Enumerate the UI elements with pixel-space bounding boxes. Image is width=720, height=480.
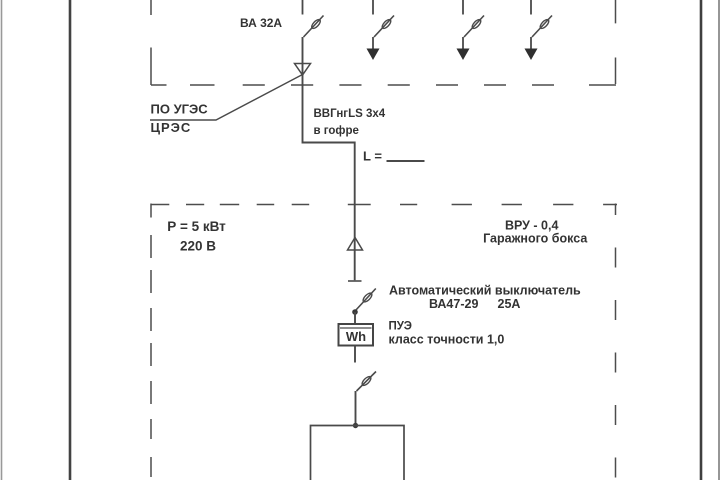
svg-text:в гофре: в гофре xyxy=(314,125,359,137)
breaker QF3 mark xyxy=(471,18,482,30)
drawing frame left xyxy=(69,0,72,480)
svg-text:25А: 25А xyxy=(498,297,521,311)
switch QS1 mark xyxy=(361,375,373,387)
svg-text:Автоматический выключатель: Автоматический выключатель xyxy=(389,284,581,298)
breaker QF2 blade xyxy=(374,16,394,38)
svg-text:ЦРЭС: ЦРЭС xyxy=(151,120,192,135)
breaker QF5 mark xyxy=(362,292,374,304)
breaker QF4 arrow xyxy=(525,49,538,61)
svg-text:Гаражного бокса: Гаражного бокса xyxy=(483,232,588,246)
dashed enclosure box 1 (supply cabinet) left border xyxy=(150,0,152,85)
breaker QF2 supply stub xyxy=(372,0,374,15)
svg-text:ВА47-29: ВА47-29 xyxy=(429,297,478,311)
breaker QF2 feeder stub xyxy=(372,37,374,50)
wire meter to switch xyxy=(354,346,356,363)
wire hinge to meter xyxy=(354,312,356,324)
dashed enclosure box 1 right border xyxy=(615,0,617,84)
breaker QF3 arrow xyxy=(457,49,470,61)
svg-text:ПУЭ: ПУЭ xyxy=(389,321,412,333)
svg-text:L =: L = xyxy=(363,149,382,164)
breaker QF1 blade xyxy=(304,16,324,38)
breaker QF5 (ВА47-29) blade xyxy=(356,289,376,311)
leader line to ПО УГЭС xyxy=(150,75,303,121)
breaker QF1 supply stub xyxy=(302,0,304,15)
breaker QF3 feeder stub xyxy=(462,37,464,50)
breaker QF4 mark xyxy=(539,18,550,30)
breaker QF4 feeder stub xyxy=(530,37,532,50)
load box (garage panel) xyxy=(311,426,405,480)
sheet edge line right xyxy=(718,0,720,480)
breaker QF2 mark xyxy=(381,18,392,30)
dashed enclosure box 2 right border xyxy=(615,204,617,478)
junction dot xyxy=(353,423,358,428)
dashed enclosure box 2 (ВРУ cabinet) top border xyxy=(151,204,617,206)
cable termination triangle (down) xyxy=(295,64,311,76)
meter inner top line xyxy=(340,327,372,329)
svg-text:ПО УГЭС: ПО УГЭС xyxy=(151,102,209,117)
svg-text:ВВГнгLS 3х4: ВВГнгLS 3х4 xyxy=(314,108,386,120)
input triangle (up) xyxy=(348,238,363,251)
meter Wh box xyxy=(339,324,374,346)
drawing frame right xyxy=(700,0,703,480)
wire switch to load box xyxy=(355,391,357,426)
fixed contact tick xyxy=(348,280,362,282)
dashed enclosure box 2 left border xyxy=(150,204,152,478)
svg-text:класс точности 1,0: класс точности 1,0 xyxy=(389,333,505,347)
svg-text:ВРУ - 0,4: ВРУ - 0,4 xyxy=(505,219,559,233)
dashed enclosure box 1 bottom border xyxy=(151,84,616,86)
svg-text:Р = 5 кВт: Р = 5 кВт xyxy=(167,219,226,234)
breaker QF5 hinge dot xyxy=(352,309,358,315)
sheet edge line left xyxy=(1,0,3,480)
breaker QF3 blade xyxy=(464,16,484,38)
blank length line xyxy=(387,160,425,162)
breaker QF2 arrow xyxy=(367,49,380,61)
breaker QF4 supply stub xyxy=(530,0,532,15)
switch QS1 blade xyxy=(357,372,377,392)
wire: feeder drop with jog xyxy=(303,37,355,280)
breaker QF1 mark xyxy=(310,18,321,30)
breaker QF4 blade xyxy=(532,16,552,38)
svg-text:220 В: 220 В xyxy=(180,239,216,254)
svg-text:ВА 32А: ВА 32А xyxy=(240,16,282,30)
svg-text:Wh: Wh xyxy=(346,329,366,344)
breaker QF3 supply stub xyxy=(462,0,464,15)
